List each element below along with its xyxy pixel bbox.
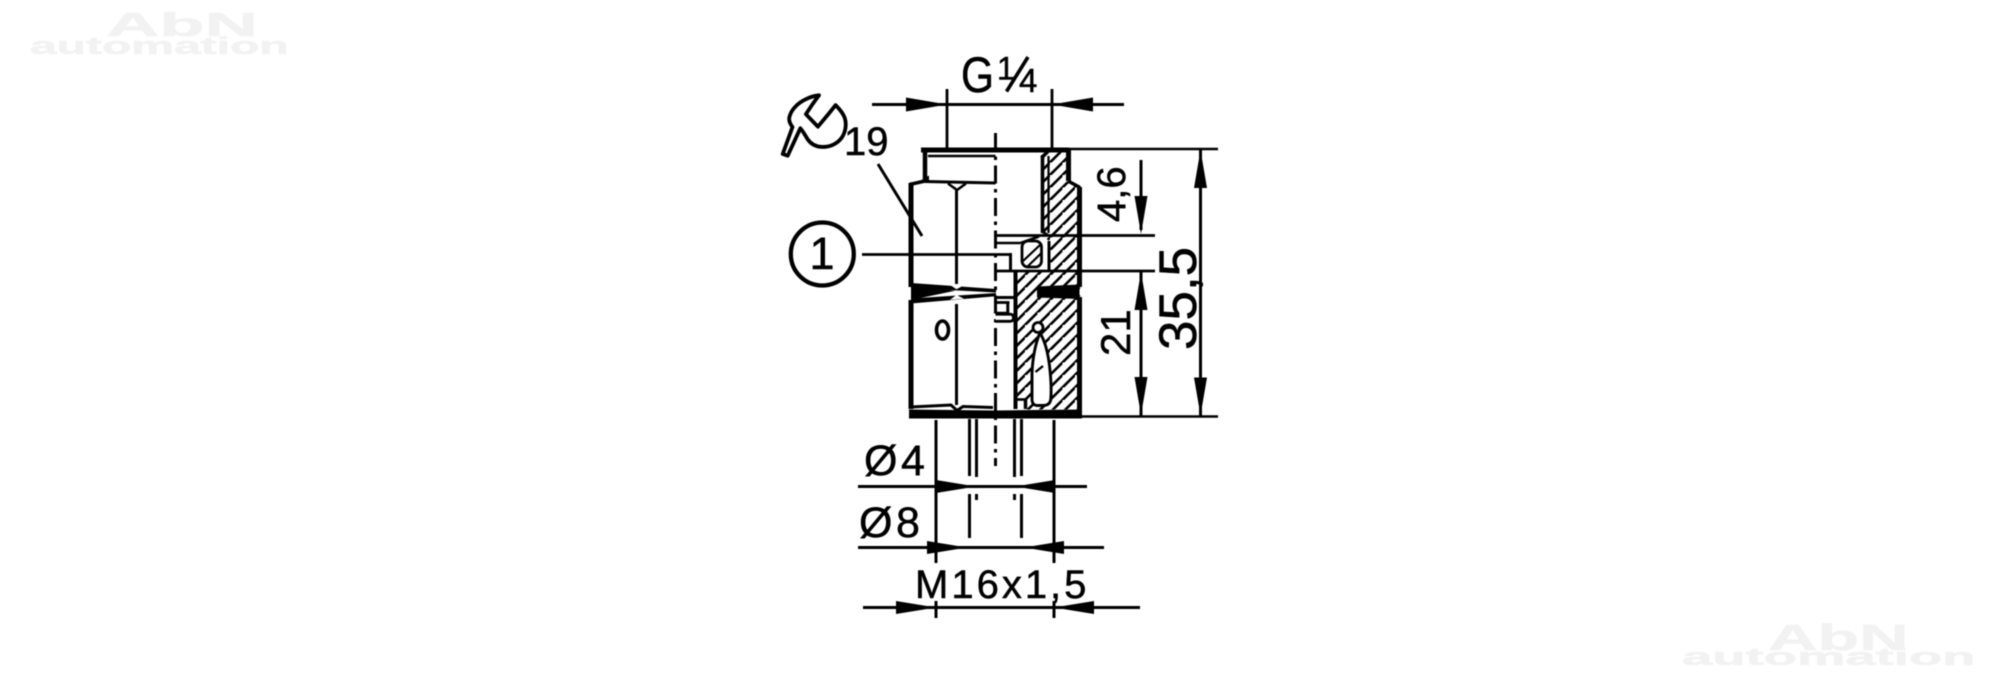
spool cap [996, 314, 1014, 321]
spool flange bottom [996, 301, 1010, 304]
dimension G1/4 extension left [946, 89, 949, 150]
pocket wall [1048, 241, 1051, 271]
balloon circle 1 [791, 223, 854, 286]
M16 extension right [1053, 420, 1056, 618]
balloon leader [862, 253, 1009, 256]
hex top right chamfer [1068, 181, 1080, 188]
hex top V notch [948, 184, 966, 191]
dimension M16 line [863, 606, 1140, 609]
M16 arrow left [896, 601, 936, 614]
hatch section upper (G1/4 thread wall) [1043, 150, 1079, 271]
hex right edge upper [1077, 187, 1082, 287]
M16 extension left [935, 420, 938, 618]
leader 19 [878, 164, 922, 236]
21 arrow up [1135, 272, 1148, 310]
svg-text:M16x1,5: M16x1,5 [915, 563, 1089, 607]
svg-text:19: 19 [844, 120, 889, 164]
35,5 arrow up [1194, 150, 1207, 188]
fraction slash [1007, 57, 1029, 92]
waist wedge fill [911, 285, 955, 300]
lower hex left edge [909, 300, 914, 409]
dimension 35,5 line [1199, 150, 1202, 416]
port left edge [923, 150, 928, 181]
tube bore right [1013, 419, 1016, 500]
dimension 4,6 line [1140, 160, 1143, 230]
bore step [1016, 398, 1026, 401]
svg-text:Ø4: Ø4 [864, 437, 928, 485]
dimension diameter8 line [858, 546, 1104, 549]
dimension 21 line [1140, 271, 1143, 416]
thread line root [1047, 156, 1049, 233]
M16 arrow right [1054, 601, 1094, 614]
hatch section lower body [1018, 271, 1079, 410]
diameter4 arrow right [1015, 480, 1055, 493]
top face [921, 148, 1069, 153]
svg-text:G: G [961, 47, 994, 103]
line A thread bottom [996, 234, 1156, 237]
svg-text:automation: automation [30, 33, 289, 60]
waist V notch upper [949, 284, 964, 289]
thread top chamfer [1041, 150, 1050, 158]
lower hex inner edge [955, 304, 958, 405]
dimension diameter4 line [858, 485, 1087, 488]
thread line crest [1041, 156, 1045, 233]
G1/4 arrow right [1052, 98, 1093, 112]
spool flange top [996, 296, 1015, 299]
waist band right [1037, 285, 1080, 300]
21 arrow down [1135, 377, 1148, 415]
bottom face band [909, 410, 1082, 419]
svg-text:1: 1 [809, 228, 834, 279]
pocket shoulder line [996, 242, 1021, 245]
port base wedge [919, 176, 930, 183]
svg-text:35,5: 35,5 [1149, 247, 1208, 350]
svg-text:4,6: 4,6 [1090, 166, 1134, 222]
hex top line [925, 182, 996, 184]
bore wall [1014, 272, 1018, 409]
svg-text:21: 21 [1092, 309, 1139, 356]
pocket inner wall [1009, 253, 1012, 272]
waist right notch [1072, 287, 1080, 297]
tube outer left [968, 419, 971, 538]
vent hole oval [937, 321, 949, 339]
waist lower band [911, 293, 996, 304]
dimension G1/4 line [872, 103, 1124, 106]
svg-text:automation: automation [1682, 643, 1975, 670]
hex top left slope [910, 181, 926, 185]
vent circle in section [1033, 323, 1043, 333]
35,5 arrow down [1194, 378, 1207, 416]
bore step wall [1024, 400, 1028, 410]
4,6 arrow down [1135, 196, 1148, 234]
waist V notch lower [950, 295, 964, 300]
runout loop in section [1032, 333, 1051, 406]
runout inner line [1036, 366, 1044, 372]
dimension G1/4 extension right [1051, 89, 1054, 150]
upper hex left edge [909, 183, 914, 287]
spool flange3 [996, 312, 1009, 315]
port right edge [1066, 150, 1071, 181]
top extension line right [1069, 148, 1218, 151]
bottom chamfer line left [911, 405, 993, 411]
svg-text:Ø8: Ø8 [859, 499, 923, 547]
waist upper band [911, 283, 996, 293]
diameter4 arrow left [936, 480, 976, 493]
centerline [994, 133, 997, 466]
thread bottom chamfer [1042, 231, 1049, 236]
bottom extension line [1082, 415, 1218, 418]
G1/4 arrow left [906, 98, 947, 112]
pocket chamfer slant [1021, 237, 1040, 244]
line B pocket bottom [996, 270, 1156, 273]
hex right edge lower [1077, 297, 1082, 411]
diameter8 arrow right [1024, 541, 1064, 554]
upper hex inner edge [955, 190, 958, 284]
port chamfer line [928, 155, 996, 158]
tube outer right [1020, 419, 1023, 538]
tube bore left [975, 419, 978, 500]
diameter8 arrow left [927, 541, 967, 554]
seal ring 1 cross-section [1022, 241, 1042, 268]
wrench icon [783, 95, 846, 155]
spool neck edge [1006, 304, 1009, 314]
